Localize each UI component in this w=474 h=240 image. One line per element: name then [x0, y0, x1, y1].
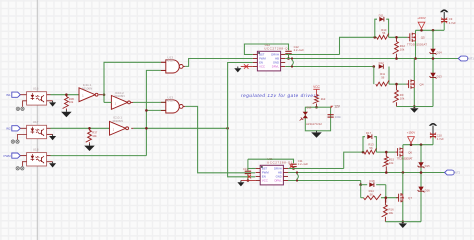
svg-text:40106N: 40106N — [82, 87, 93, 91]
svg-text:C13: C13 — [243, 167, 248, 171]
svg-text:4011N: 4011N — [166, 59, 175, 63]
svg-text:VCC: VCC — [262, 179, 268, 183]
svg-text:GND: GND — [276, 175, 282, 179]
svg-text:U17: U17 — [33, 120, 39, 124]
svg-text:56: 56 — [369, 146, 373, 150]
svg-text:56: 56 — [370, 192, 374, 196]
svg-text:40106N: 40106N — [114, 94, 125, 98]
svg-text:Q4: Q4 — [420, 82, 424, 86]
svg-text:HB: HB — [278, 171, 282, 175]
svg-text:10k: 10k — [389, 211, 394, 215]
svg-text:VCC: VCC — [313, 85, 320, 89]
svg-text:HB: HB — [275, 57, 279, 61]
svg-text:D14: D14 — [437, 51, 443, 55]
svg-text:GND: GND — [273, 61, 279, 65]
svg-text:BST: BST — [259, 53, 265, 57]
svg-text:D12: D12 — [379, 61, 385, 65]
svg-text:Q6: Q6 — [408, 150, 412, 154]
svg-text:10k: 10k — [400, 96, 405, 100]
svg-text:U18: U18 — [33, 147, 39, 151]
svg-text:PWM: PWM — [262, 171, 269, 175]
svg-text:DRVH: DRVH — [271, 53, 279, 57]
svg-text:PWM: PWM — [4, 154, 12, 158]
svg-text:BST: BST — [262, 167, 268, 171]
svg-text:IN1: IN1 — [6, 93, 11, 97]
svg-text:regulated 12v for gate drivers: regulated 12v for gate drivers — [241, 93, 319, 98]
svg-text:40106N: 40106N — [112, 119, 123, 123]
svg-text:UCC27288-Q1: UCC27288-Q1 — [267, 160, 293, 164]
svg-text:VCC: VCC — [259, 65, 265, 69]
svg-text:OUT2: OUT2 — [453, 171, 460, 175]
svg-text:56: 56 — [382, 31, 386, 35]
svg-text:EN: EN — [259, 61, 263, 65]
svg-text:2.2~1uF: 2.2~1uF — [298, 162, 309, 166]
svg-text:PWM: PWM — [259, 57, 266, 61]
svg-text:Q5: Q5 — [421, 36, 425, 40]
svg-text:DRVL: DRVL — [275, 179, 283, 183]
svg-text:D15: D15 — [425, 164, 431, 168]
svg-text:IN2: IN2 — [6, 127, 11, 131]
svg-text:DRVL: DRVL — [272, 65, 280, 69]
svg-text:10k: 10k — [69, 100, 74, 104]
svg-text:OUT1: OUT1 — [467, 57, 474, 61]
svg-text:D19: D19 — [307, 106, 312, 110]
svg-text:10k: 10k — [400, 48, 405, 52]
svg-text:+150V: +150V — [407, 130, 416, 134]
svg-text:12V: 12V — [334, 104, 341, 108]
svg-text:56: 56 — [381, 76, 385, 80]
svg-text:AZ1117C/12: AZ1117C/12 — [306, 122, 322, 126]
svg-text:U16: U16 — [33, 87, 39, 91]
svg-text:UCC27288-Q1: UCC27288-Q1 — [264, 46, 290, 50]
svg-text:100n: 100n — [335, 115, 342, 119]
svg-text:10k: 10k — [389, 161, 394, 165]
svg-text:EN: EN — [262, 175, 266, 179]
svg-text:D17: D17 — [366, 131, 372, 135]
svg-text:2.2~1uF: 2.2~1uF — [294, 48, 305, 52]
svg-text:D18: D18 — [369, 179, 375, 183]
svg-text:4.7uF: 4.7uF — [437, 137, 444, 141]
svg-text:4011N: 4011N — [166, 99, 175, 103]
svg-text:DRVH: DRVH — [274, 167, 282, 171]
svg-text:4.7uF: 4.7uF — [449, 21, 456, 25]
svg-text:TTD3N150SAT: TTD3N150SAT — [397, 156, 413, 160]
svg-text:TTD3N150SAT: TTD3N150SAT — [407, 42, 427, 46]
svg-text:10k: 10k — [92, 134, 97, 138]
svg-text:D13: D13 — [437, 75, 443, 79]
svg-text:2k2: 2k2 — [321, 97, 326, 101]
svg-text:D16: D16 — [425, 188, 431, 192]
svg-text:D11: D11 — [379, 14, 384, 18]
svg-text:+150V: +150V — [417, 16, 426, 20]
svg-text:Q7: Q7 — [408, 196, 412, 200]
